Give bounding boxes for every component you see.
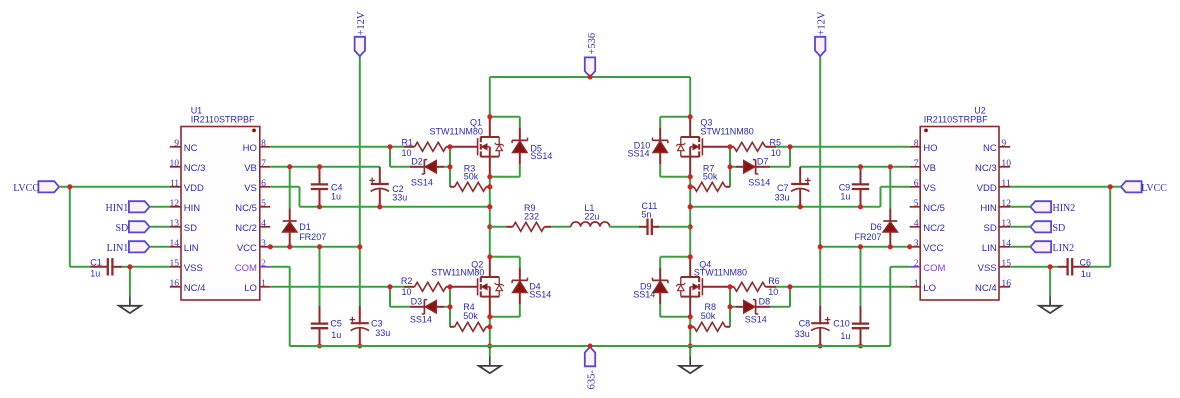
svg-text:SS14: SS14 [748,177,770,187]
svg-text:33u: 33u [795,329,810,339]
svg-text:7: 7 [261,158,266,169]
svg-text:HIN1: HIN1 [106,203,129,214]
svg-text:8: 8 [914,138,919,149]
svg-text:NC: NC [184,143,198,154]
svg-text:LIN1: LIN1 [107,243,129,254]
svg-text:50k: 50k [701,311,716,321]
svg-text:R1: R1 [402,137,414,147]
svg-text:22u: 22u [584,211,599,221]
svg-text:+12V: +12V [356,11,367,35]
svg-text:3: 3 [914,238,919,249]
svg-text:C6: C6 [1080,257,1092,267]
svg-text:+12V: +12V [817,11,828,35]
svg-text:VDD: VDD [977,183,997,194]
svg-text:SD: SD [983,223,996,234]
svg-text:FR207: FR207 [855,232,882,242]
svg-text:9: 9 [1001,138,1006,149]
svg-text:STW11NM80: STW11NM80 [430,126,483,136]
svg-text:635-: 635- [586,370,597,390]
svg-text:R2: R2 [401,276,413,286]
svg-text:D8: D8 [759,297,771,307]
svg-text:10: 10 [402,148,412,158]
svg-text:12: 12 [170,198,180,209]
svg-text:6: 6 [261,178,266,189]
svg-text:SD: SD [184,223,197,234]
svg-text:13: 13 [1001,218,1011,229]
svg-text:SS14: SS14 [745,315,767,325]
svg-text:33u: 33u [375,328,390,338]
svg-text:HO: HO [243,143,257,154]
svg-text:NC/5: NC/5 [235,203,257,214]
svg-text:1u: 1u [331,330,341,340]
svg-text:VB: VB [244,163,257,174]
svg-text:1: 1 [914,278,919,289]
svg-text:D3: D3 [411,297,423,307]
svg-text:LIN: LIN [184,243,199,254]
svg-text:11: 11 [170,178,179,189]
svg-text:C10: C10 [833,318,850,328]
svg-text:14: 14 [170,238,180,249]
svg-text:SS14: SS14 [530,151,552,161]
svg-text:8: 8 [261,138,266,149]
svg-text:15: 15 [170,258,180,269]
svg-text:1u: 1u [90,269,100,279]
svg-text:C7: C7 [777,183,789,193]
svg-text:STW11NM80: STW11NM80 [694,268,747,278]
svg-text:10: 10 [1001,158,1011,169]
svg-text:D6: D6 [870,222,882,232]
svg-text:10: 10 [402,287,412,297]
svg-text:+536: +536 [587,33,598,55]
svg-text:14: 14 [1001,238,1011,249]
svg-text:1u: 1u [840,191,850,201]
svg-text:VS: VS [244,183,257,194]
svg-text:HIN2: HIN2 [1053,203,1076,214]
svg-text:7: 7 [914,158,919,169]
svg-text:HIN: HIN [980,203,997,214]
svg-text:LVCC: LVCC [13,183,39,194]
svg-text:SD: SD [1053,223,1066,234]
svg-text:5: 5 [914,198,919,209]
svg-text:LO: LO [244,283,257,294]
svg-text:SS14: SS14 [410,315,432,325]
svg-text:LO: LO [923,283,936,294]
svg-text:3: 3 [261,238,266,249]
svg-text:NC/3: NC/3 [184,163,206,174]
svg-text:C5: C5 [330,318,342,328]
svg-text:12: 12 [1001,198,1011,209]
svg-text:STW11NM80: STW11NM80 [700,126,753,136]
svg-text:10: 10 [170,158,180,169]
svg-text:IR2110STRPBF: IR2110STRPBF [191,115,255,125]
svg-text:STW11NM80: STW11NM80 [431,268,484,278]
svg-text:VSS: VSS [978,263,997,274]
svg-text:NC/5: NC/5 [923,203,945,214]
svg-text:4: 4 [914,218,919,229]
svg-text:C3: C3 [371,318,383,328]
svg-text:1: 1 [261,278,266,289]
svg-text:NC/2: NC/2 [923,223,945,234]
svg-text:SS14: SS14 [529,290,551,300]
svg-text:HO: HO [923,143,937,154]
svg-text:9: 9 [174,138,179,149]
svg-text:LVCC: LVCC [1141,183,1167,194]
svg-text:D1: D1 [299,222,311,232]
svg-text:16: 16 [170,278,180,289]
svg-text:NC: NC [983,143,997,154]
svg-text:R6: R6 [768,276,780,286]
svg-text:D2: D2 [411,156,423,166]
svg-text:232: 232 [524,211,539,221]
svg-text:33u: 33u [775,192,790,202]
svg-text:VCC: VCC [237,243,257,254]
svg-text:50k: 50k [703,171,718,181]
svg-text:5n: 5n [642,210,652,220]
svg-text:2: 2 [914,258,919,269]
svg-text:5: 5 [261,198,266,209]
svg-text:1u: 1u [840,331,850,341]
svg-text:NC/2: NC/2 [235,223,257,234]
svg-text:SS14: SS14 [628,149,650,159]
svg-text:13: 13 [170,218,180,229]
svg-text:10: 10 [768,287,778,297]
svg-text:NC/4: NC/4 [975,283,997,294]
svg-text:C1: C1 [90,257,102,267]
svg-text:IR2110STRPBF: IR2110STRPBF [924,115,988,125]
svg-text:50k: 50k [463,311,478,321]
svg-text:NC/3: NC/3 [975,163,997,174]
svg-text:11: 11 [1001,178,1010,189]
svg-text:10: 10 [771,148,781,158]
svg-text:LIN: LIN [982,243,997,254]
svg-text:LIN2: LIN2 [1053,243,1075,254]
svg-text:VDD: VDD [184,183,204,194]
svg-text:SS14: SS14 [633,290,655,300]
svg-text:50k: 50k [464,171,479,181]
svg-text:4: 4 [261,218,266,229]
svg-text:1u: 1u [331,191,341,201]
svg-text:VSS: VSS [184,263,203,274]
svg-text:FR207: FR207 [299,232,326,242]
svg-text:1u: 1u [1081,269,1091,279]
svg-text:16: 16 [1001,278,1011,289]
svg-text:6: 6 [914,178,919,189]
svg-text:NC/4: NC/4 [184,283,206,294]
svg-text:2: 2 [261,258,266,269]
svg-text:SS14: SS14 [411,177,433,187]
svg-text:SD: SD [116,223,129,234]
svg-text:33u: 33u [392,192,407,202]
svg-text:C8: C8 [799,318,811,328]
svg-text:HIN: HIN [184,203,201,214]
svg-text:COM: COM [923,263,945,274]
svg-text:VS: VS [923,183,936,194]
svg-text:R5: R5 [770,137,782,147]
svg-text:D7: D7 [757,156,769,166]
svg-text:VB: VB [923,163,936,174]
svg-text:15: 15 [1001,258,1011,269]
svg-text:VCC: VCC [923,243,943,254]
svg-text:COM: COM [235,263,257,274]
